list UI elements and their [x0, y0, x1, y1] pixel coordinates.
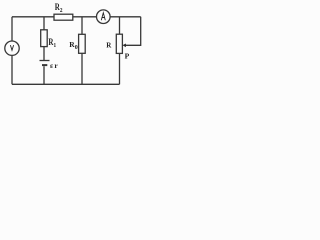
svg-text:εr: εr [50, 61, 58, 70]
svg-text:R: R [106, 42, 112, 50]
svg-text:P: P [125, 52, 130, 61]
svg-text:R2: R2 [55, 2, 63, 14]
svg-text:R0: R0 [69, 40, 77, 51]
svg-text:R1: R1 [48, 37, 56, 49]
